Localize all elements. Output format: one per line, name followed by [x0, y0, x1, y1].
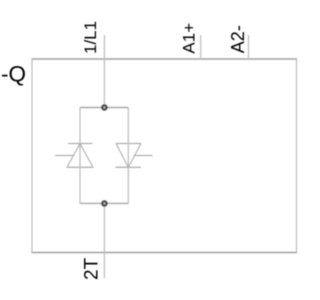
svg-text:1/L1: 1/L1 — [81, 21, 100, 54]
svg-text:A2-: A2- — [228, 25, 248, 53]
svg-text:2T: 2T — [82, 257, 103, 280]
svg-text:-Q: -Q — [1, 62, 26, 87]
svg-text:A1+: A1+ — [180, 23, 199, 54]
